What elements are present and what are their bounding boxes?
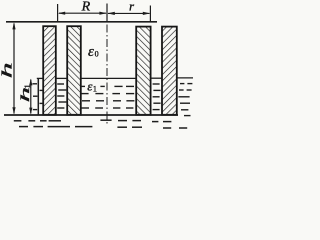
svg-text:1: 1 — [22, 84, 32, 88]
svg-text:ε: ε — [88, 44, 94, 60]
svg-text:1: 1 — [93, 83, 97, 93]
svg-text:0: 0 — [95, 50, 99, 59]
svg-text:R: R — [81, 0, 91, 15]
svg-text:h: h — [0, 62, 15, 78]
